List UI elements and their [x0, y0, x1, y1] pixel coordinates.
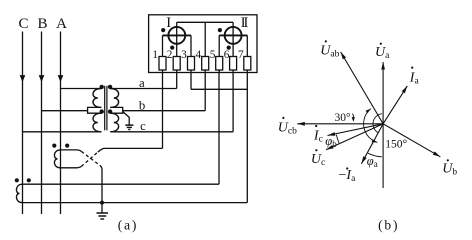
ground 2 stem: [101, 203, 103, 213]
wire terminal 3 drop: [190, 73, 192, 90]
wire CT1 top lead: [61, 150, 82, 152]
svg-text:A: A: [56, 16, 67, 32]
terminal 3 rectangle: [188, 57, 195, 71]
phasor I_c: [328, 124, 384, 136]
wattmeter II voltage coil line to terminal 6: [232, 22, 234, 56]
wattmeter II current coil lead to terminal 7: [246, 35, 248, 56]
svg-text:150°: 150°: [385, 139, 407, 151]
wire A to PT primary: [61, 88, 102, 90]
wire terminal 6 drop to c: [232, 73, 234, 132]
terminal 4 stub to box bottom: [204, 70, 206, 73]
terminal 4 rectangle: [202, 57, 209, 71]
arc 150deg arrowhead bottom: [372, 139, 378, 142]
wire voltage-coil common (W1 top to W2 top): [177, 21, 233, 23]
ground 2 (CT common): [97, 212, 109, 214]
PT core: [104, 86, 106, 131]
wire terminal 2 drop to a: [176, 73, 178, 89]
svg-text:a: a: [139, 76, 145, 90]
small 30deg leader arrow: [352, 114, 355, 118]
arc 150deg (U_ab to -U_a): [364, 109, 378, 143]
arc phi_b (I_c to U_c): [336, 135, 339, 144]
phasor U_a axis line: [382, 62, 384, 188]
phasor U_b: [383, 124, 440, 157]
arrow on phase B: [39, 75, 45, 82]
wire c (PT secondary to terminal 6 drop): [110, 131, 233, 133]
PT polarity dots: [100, 85, 104, 89]
svg-text:φb: φb: [325, 134, 337, 149]
terminal 2 stub to box bottom: [176, 70, 178, 73]
voltage transformer TV primary winding 2 (B-C): [93, 113, 101, 132]
wattmeter I current coil lead to terminal 3: [190, 35, 192, 56]
terminal 5 stub to box bottom: [218, 70, 220, 73]
svg-text:Ucb: Ucb: [278, 121, 297, 137]
wire terminal 7 drop to ground bus: [246, 73, 248, 203]
wattmeter I current coil bar: [163, 34, 192, 36]
wire b (PT secondary to terminal 4 drop): [123, 110, 206, 112]
voltage transformer TV secondary winding 1 (a-b): [110, 89, 118, 108]
terminal 5 rectangle: [216, 57, 223, 71]
arc phi_a (-I_a to -U_a): [368, 153, 382, 157]
wattmeter II polarity dots: [218, 28, 222, 32]
svg-text:I: I: [243, 15, 248, 31]
wire b-lead to ground 1: [123, 112, 130, 125]
svg-text:C: C: [18, 16, 28, 32]
CT1 polarity dots: [52, 144, 56, 148]
svg-text:7: 7: [238, 49, 244, 61]
svg-text:4: 4: [196, 49, 202, 61]
junction dot on ground bus: [100, 201, 104, 205]
wattmeter I voltage coil line to terminal 2: [176, 22, 178, 56]
wire phase C: [22, 32, 24, 215]
svg-text:Ub: Ub: [442, 162, 457, 178]
wattmeter II current coil lead to terminal 5: [218, 35, 220, 56]
wire CT1 lead corner + horizontal to terminal 1 drop: [98, 148, 163, 152]
svg-text:30°: 30°: [335, 112, 352, 124]
svg-text:6: 6: [224, 49, 230, 61]
svg-text:5: 5: [210, 49, 216, 61]
wire CT1 lead corner + vertical to ground junction: [100, 165, 102, 202]
phasor I_a: [383, 86, 407, 124]
terminal 2 rectangle: [173, 57, 180, 71]
arc 150deg arrowhead top: [366, 109, 371, 114]
svg-text:(b): (b): [378, 217, 399, 232]
wire CT1 crossed lead (dashed) to ground bus: [81, 151, 100, 165]
wattmeter II current coil bar: [219, 34, 247, 36]
wire CT2 bottom lead / ground bus to terminal 7 drop: [23, 202, 248, 204]
terminal 3 stub to box bottom: [190, 70, 192, 73]
svg-text:3: 3: [181, 49, 187, 61]
arrow on phase C: [20, 75, 26, 82]
meter box outline: [149, 15, 257, 73]
voltage transformer TV secondary winding 2 (b-c): [110, 113, 118, 132]
wattmeter II circle: [225, 27, 242, 44]
phasor U_a arrowhead: [381, 62, 385, 70]
svg-text:(a): (a): [118, 217, 138, 232]
voltage transformer TV primary winding 1 (A-B): [93, 89, 101, 108]
svg-text:B: B: [37, 16, 47, 32]
wire phase B: [41, 32, 43, 215]
current transformer TA1 winding (phase A): [54, 150, 60, 168]
svg-text:Uc: Uc: [311, 152, 325, 168]
terminal 6 rectangle: [230, 57, 237, 71]
terminal 6 stub to box bottom: [232, 70, 234, 73]
phasor minus I_a: [361, 124, 383, 164]
CT2 polarity dots: [15, 178, 19, 182]
wire CT1 crossed lead (dashed) to terminal 1: [81, 152, 98, 166]
wattmeter I current coil lead to terminal 1: [162, 35, 164, 56]
wire terminal 5 drop to CT2 lead: [218, 73, 220, 185]
phasor U_ab: [341, 52, 384, 124]
svg-text:b: b: [139, 99, 145, 113]
PT primary middle tab (phase B lead): [88, 107, 102, 113]
PT secondary middle tab (b lead): [110, 107, 122, 113]
terminal 7 rectangle: [244, 57, 251, 71]
wire terminal 3 to terminal 7 link: [191, 88, 247, 90]
svg-text:1: 1: [152, 49, 158, 61]
wattmeter I polarity dots: [161, 28, 165, 32]
svg-text:Ua: Ua: [375, 45, 390, 61]
wire common tap down to terminal 4: [204, 22, 206, 56]
svg-text:Uab: Uab: [320, 44, 339, 60]
current transformer TA2 winding (phase C): [16, 184, 22, 202]
svg-text:2: 2: [167, 49, 173, 61]
ground 1 (PT secondary): [125, 124, 133, 126]
wattmeter I circle: [168, 27, 185, 44]
wire terminal 4 drop to b: [204, 73, 206, 111]
phasor U_c: [326, 124, 383, 150]
wire a (PT secondary to terminal 2 drop): [110, 88, 176, 90]
arrow on phase A: [58, 75, 64, 82]
terminal 1 rectangle: [159, 57, 166, 71]
wire CT1 bottom lead: [61, 166, 82, 167]
svg-text:−Ia: −Ia: [339, 168, 357, 184]
wire CT2 top lead to terminal 5 drop: [23, 183, 220, 185]
phasor U_cb: [297, 123, 383, 125]
wire B to PT primary tab: [42, 110, 88, 112]
wire C to PT primary: [23, 131, 102, 133]
arc inner (U_a to -I_a): [373, 114, 382, 133]
wire terminal 1 drop: [162, 73, 164, 149]
svg-text:Ia: Ia: [409, 70, 420, 86]
terminal 1 stub to box bottom: [162, 70, 164, 73]
svg-text:c: c: [140, 119, 146, 133]
svg-text:Ic: Ic: [313, 128, 323, 144]
terminal 7 stub to box bottom: [246, 70, 248, 73]
wire phase A: [60, 32, 62, 215]
